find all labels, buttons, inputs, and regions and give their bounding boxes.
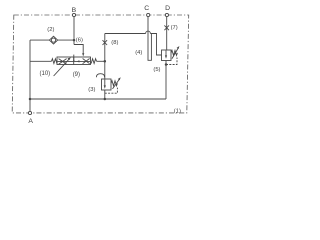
- wire: vertical x=104.8 from top corner through (8) and valve (3) to bottom line: [104, 34, 106, 100]
- port node C: [147, 13, 150, 16]
- valve (3) top-left pilot hook: [96, 74, 104, 78]
- wire: C port down, U-jog joining horizontal branch: [148, 17, 151, 61]
- valve (3) pilot dashed line: [105, 88, 118, 94]
- wire: pilot line (6) jog to valve top with arrow: [74, 45, 83, 54]
- svg-text:C: C: [144, 5, 149, 12]
- valve (9) left spring: [52, 59, 58, 64]
- wire: hop arc over C line: [146, 31, 151, 33]
- wire: B port vertical down to pilot jog: [73, 17, 75, 45]
- svg-text:A: A: [28, 118, 33, 125]
- wire: top horizontal from x=104.8 corner with hop over C line: [105, 33, 146, 35]
- check valve (2) diamond with ball: [49, 36, 57, 44]
- relief valve (3) body: [102, 79, 112, 90]
- valve (9) divider overshoot pin: [73, 55, 75, 62]
- port node A: [28, 111, 31, 114]
- wire: left vertical x=30 from corner down to A port: [29, 40, 31, 111]
- wire: valve (5) outlet down to bottom line: [165, 61, 167, 100]
- valve (9) right cell crossed arrows: [83, 59, 90, 64]
- valve (9) left cell crossed arrows: [59, 59, 67, 65]
- port node B: [72, 13, 75, 16]
- svg-text:(3): (3): [88, 87, 95, 93]
- svg-text:(10): (10): [40, 71, 51, 77]
- relief valve (5) body: [162, 50, 172, 61]
- enclosure boundary (1) dash-dot frame: [12, 15, 189, 113]
- wire: check-valve line y=40.5 from x=30 corner to B line: [30, 39, 74, 41]
- svg-text:(4): (4): [135, 50, 142, 56]
- wire: valve right line to x=104.8 vertical: [97, 60, 105, 62]
- svg-text:(2): (2): [47, 27, 54, 33]
- svg-text:(1): (1): [174, 108, 181, 114]
- wire: bottom return line y=99: [30, 98, 166, 100]
- junction dot B line: [73, 39, 76, 42]
- junction dot bottom x=30: [29, 98, 32, 101]
- svg-text:(5): (5): [153, 67, 160, 73]
- svg-text:(9): (9): [73, 72, 80, 78]
- svg-text:(8): (8): [111, 40, 118, 46]
- junction dot bottom x=104.8: [104, 98, 107, 101]
- svg-text:(6): (6): [76, 38, 83, 44]
- wire: horizontal continues then down to valve (5) left port: [150, 34, 161, 56]
- valve (3) adjustment arrow: [113, 77, 121, 89]
- svg-text:B: B: [72, 7, 77, 14]
- directional valve (9) body: [57, 57, 91, 65]
- shutoff/orifice (7) X symbol on D line: [164, 25, 169, 30]
- valve (9) internal flow line with arrows: [57, 60, 90, 62]
- valve (9) right spring: [91, 59, 97, 64]
- leader line from label (10) into valve left cell: [54, 57, 71, 76]
- valve (5) spring: [171, 50, 177, 55]
- wire: valve left line y=61.3 from x=30: [30, 60, 52, 62]
- valve (5) adjustment arrow: [172, 46, 179, 59]
- wire: D port vertical down through (7) to valve (5): [166, 17, 168, 50]
- valve (3) spring: [111, 81, 117, 86]
- valve (5) pilot dashed line: [166, 58, 177, 65]
- port node D: [165, 13, 168, 16]
- junction dot valve right: [104, 60, 107, 63]
- junction dot valve (5) outlet: [165, 63, 168, 66]
- svg-text:(7): (7): [171, 25, 178, 31]
- svg-text:D: D: [165, 5, 170, 12]
- shutoff/orifice (8) X symbol on vertical: [103, 40, 108, 45]
